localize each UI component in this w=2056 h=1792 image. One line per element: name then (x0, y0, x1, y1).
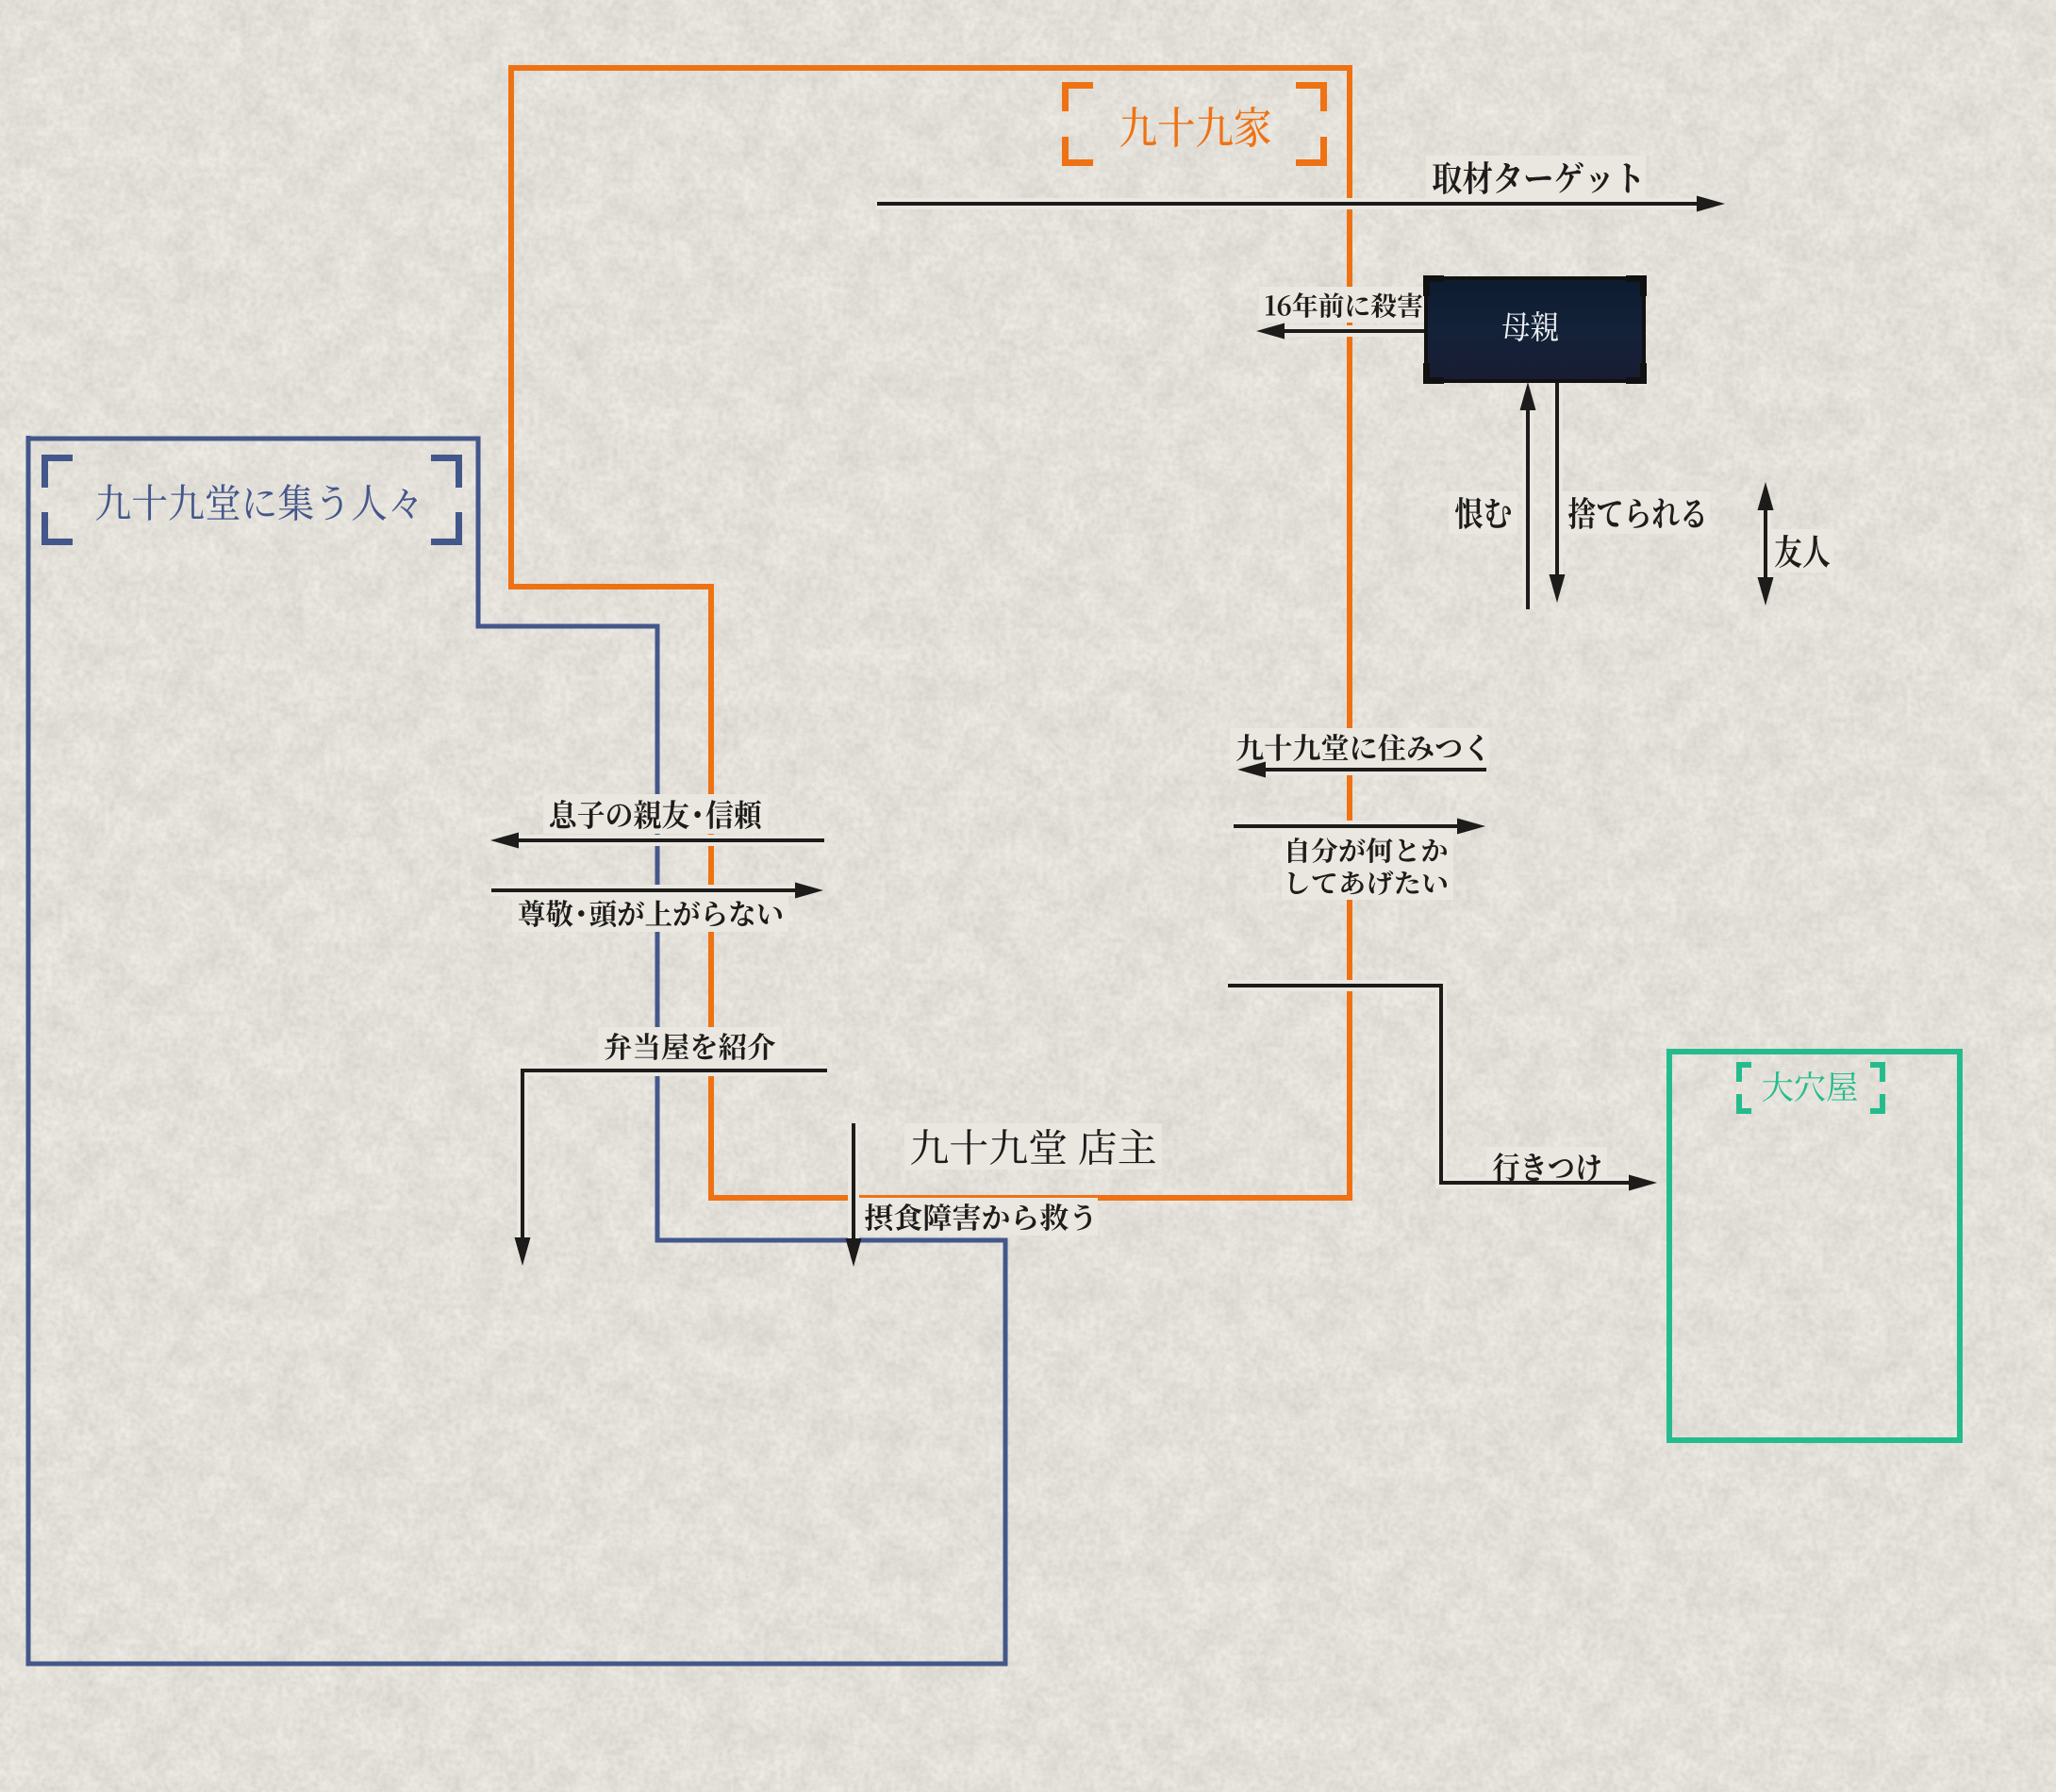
label 大穴屋 (1763, 1071, 1857, 1102)
casing arrow 自分が何とかしてあげたい (1234, 821, 1463, 832)
arrow 摂食障害から救う (852, 1123, 855, 1244)
arrow 弁当屋を紹介 (522, 1070, 827, 1243)
green label brackets (1736, 1062, 1751, 1068)
arrow 自分が何とかしてあげたい (1234, 824, 1463, 828)
arrow 友人 (1764, 505, 1767, 583)
casing arrow 友人 (1760, 505, 1771, 583)
casing arrow 行きつけ (1228, 986, 1634, 1183)
arrow 行きつけ (1228, 986, 1634, 1183)
arrow 16年前に殺害 (1279, 329, 1425, 333)
casing arrow 取材ターゲット (877, 198, 1703, 209)
label 九十九家 (1120, 107, 1270, 147)
label 母親 (1502, 311, 1558, 341)
arrow 恨む (1526, 405, 1530, 609)
node box 母親 (1426, 278, 1644, 381)
arrow 捨てられる (1555, 377, 1559, 580)
orange group box 九十九家 (508, 68, 1350, 1198)
arrow 九十九堂に住みつく (1260, 768, 1486, 772)
blue group box 九十九堂に集う人々 (28, 436, 1005, 1664)
green group box 大穴屋 (1669, 1052, 1960, 1440)
casing label 九十九堂 店主 (904, 1123, 1162, 1170)
arrow 尊敬・頭が上がらない (491, 888, 801, 892)
orange label brackets (1062, 82, 1093, 89)
arrow 息子の親友・信頼 (513, 838, 824, 842)
casing arrow 弁当屋を紹介 (522, 1070, 827, 1243)
blue label brackets (41, 455, 73, 461)
arrow 取材ターゲット (877, 202, 1703, 206)
casing arrow 恨む (1522, 405, 1534, 609)
casing arrow 息子の親友・信頼 (513, 835, 824, 846)
label 九十九堂 店主 (911, 1129, 1155, 1165)
casing arrow 捨てられる (1551, 377, 1563, 580)
casing arrow 九十九堂に住みつく (1260, 764, 1486, 775)
casing arrow 摂食障害から救う (848, 1123, 859, 1244)
label 九十九堂に集う人々 (96, 484, 417, 521)
casing arrow 尊敬・頭が上がらない (491, 885, 801, 896)
casing arrow 16年前に殺害 (1279, 325, 1425, 337)
